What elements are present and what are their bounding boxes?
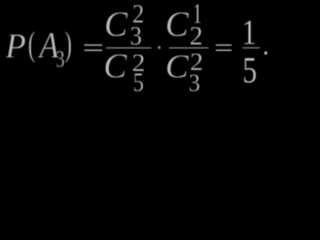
equals sign 2 top bar (216, 44, 232, 45)
fraction 3 numerator 1 (242, 13, 257, 53)
svg-text:2: 2 (190, 21, 203, 51)
subscript 3 of A (56, 45, 65, 72)
formula P(A3) = C3^2/C5^2 * C2^1/C3^2 = 1/5 (0, 0, 274, 96)
svg-text:C: C (165, 48, 189, 86)
left parenthesis (28, 26, 35, 64)
svg-text:C: C (104, 47, 128, 86)
svg-text:P: P (4, 27, 26, 66)
center dot operator (158, 46, 160, 49)
fraction 2 numerator superscript 1 (192, 0, 202, 30)
fraction 2 denominator superscript 2 (190, 48, 203, 76)
svg-text:): ) (65, 26, 72, 64)
fraction 1 numerator superscript 2 (132, 0, 144, 29)
fraction 1 bar (106, 47, 151, 48)
equals sign 1 bottom bar (84, 50, 102, 51)
equals sign 1 top bar (84, 44, 102, 45)
fraction 1 numerator subscript 3 (130, 21, 142, 51)
svg-text:(: ( (28, 26, 35, 64)
fraction 2 numerator C (165, 4, 190, 45)
svg-text:3: 3 (130, 21, 142, 51)
svg-text:1: 1 (242, 13, 257, 53)
fraction 2 bar (169, 47, 209, 48)
fraction 3 denominator 5 (242, 50, 257, 91)
fraction 1 denominator C (104, 47, 128, 86)
svg-text:5: 5 (242, 50, 257, 91)
fraction 1 numerator C (104, 5, 128, 44)
fraction 3 bar (242, 47, 259, 48)
svg-text:5: 5 (133, 70, 144, 96)
equals sign 2 bottom bar (216, 50, 232, 51)
fraction 1 denominator subscript 5 (133, 70, 144, 98)
final period (265, 52, 268, 55)
fraction 2 numerator subscript 2 (190, 21, 203, 51)
svg-text:3: 3 (56, 45, 65, 72)
variable P (4, 27, 26, 66)
fraction 2 denominator subscript 3 (189, 69, 201, 97)
fraction 2 denominator C (165, 48, 189, 86)
fraction 1 denominator superscript 2 (132, 48, 145, 76)
right parenthesis (65, 26, 72, 64)
svg-text:3: 3 (189, 69, 201, 96)
svg-text:C: C (104, 5, 128, 44)
variable A (38, 26, 59, 66)
svg-text:C: C (165, 4, 190, 45)
